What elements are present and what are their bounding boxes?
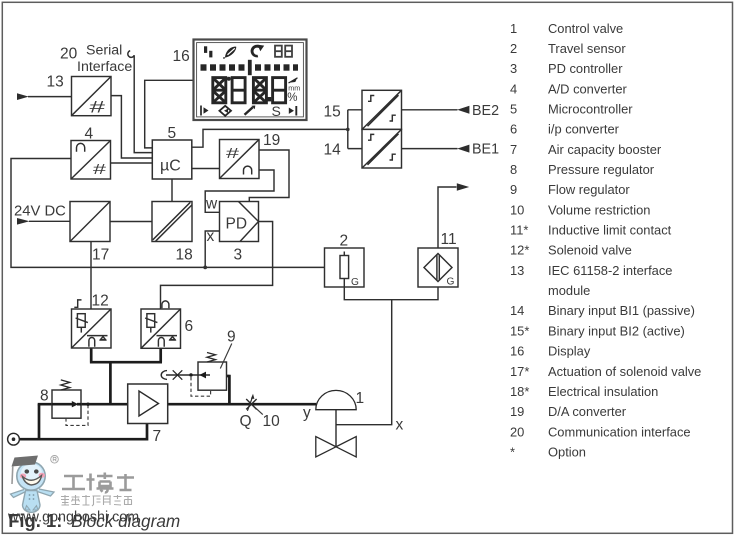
arrow from 11 up — [457, 183, 469, 191]
watermark small chinese line — [61, 495, 132, 506]
wire 5 to 19 — [192, 168, 220, 170]
svg-text:PD: PD — [226, 216, 248, 233]
svg-text:Air capacity booster: Air capacity booster — [548, 142, 662, 157]
svg-text:2: 2 — [510, 41, 517, 56]
svg-text:8: 8 — [40, 388, 49, 405]
svg-text:x: x — [207, 228, 215, 245]
svg-text:14: 14 — [510, 303, 524, 318]
arrow 24V DC — [17, 218, 30, 225]
wire 17 to solenoid 12 — [90, 242, 92, 310]
serial interface hook — [128, 51, 134, 58]
svg-text:6: 6 — [510, 122, 517, 137]
svg-text:18*: 18* — [510, 384, 529, 399]
watermark chinese brand text (drawn strokes) — [62, 473, 134, 493]
svg-text:15: 15 — [324, 104, 341, 121]
svg-text:3: 3 — [234, 247, 243, 264]
svg-text:17: 17 — [92, 247, 109, 264]
svg-text:11*: 11* — [510, 223, 528, 238]
junction dots — [346, 128, 350, 132]
wire 24V DC to 17 — [29, 220, 70, 222]
wire 5 to binary-input junction — [192, 129, 348, 147]
redraw thick line through 7 gap — [109, 403, 112, 404]
air supply symbol — [8, 433, 20, 445]
supply line bottom — [19, 438, 147, 441]
svg-text:19: 19 — [263, 132, 280, 149]
dashed feedback 9 — [191, 377, 211, 396]
svg-text:4: 4 — [510, 81, 517, 96]
block 11 inductive limit contact — [418, 248, 458, 287]
riser to 8 line — [38, 404, 41, 440]
svg-text:15*: 15* — [510, 323, 529, 338]
wire display to uC — [145, 80, 193, 148]
svg-text:PD controller: PD controller — [548, 61, 623, 76]
svg-text:Interface: Interface — [77, 59, 132, 75]
svg-text:Flow regulator: Flow regulator — [548, 182, 630, 197]
wire junction to 15 and 14 — [348, 110, 362, 149]
svg-text:9: 9 — [510, 182, 517, 197]
svg-text:Communication interface: Communication interface — [548, 424, 691, 439]
block 18 electrical insulation — [152, 202, 192, 242]
block 8 pressure regulator — [52, 390, 81, 418]
svg-text:16: 16 — [510, 344, 524, 359]
wire BE2 — [402, 109, 458, 111]
wire x input of PD — [205, 231, 219, 267]
9 input line with vent and restriction — [166, 374, 210, 376]
spring on 8 — [61, 380, 70, 390]
output line 7 to valve dome — [168, 403, 317, 406]
svg-text:13: 13 — [510, 263, 524, 278]
wire serial interface down to uC — [134, 55, 152, 152]
svg-text:16: 16 — [173, 48, 190, 65]
spring on 9 — [207, 353, 216, 363]
svg-text:y: y — [303, 405, 311, 422]
svg-text:11: 11 — [441, 231, 457, 248]
svg-text:i/p converter: i/p converter — [548, 122, 620, 137]
svg-text:Block diagram: Block diagram — [71, 511, 180, 531]
svg-text:8: 8 — [510, 162, 517, 177]
wire 19 to w input — [205, 170, 274, 212]
block 4 A/D converter — [71, 141, 111, 180]
svg-text:3: 3 — [510, 61, 517, 76]
svg-text:7: 7 — [510, 142, 517, 157]
block 6 i/p converter — [141, 309, 181, 348]
arrow into 13 — [17, 93, 29, 100]
svg-text:Microcontroller: Microcontroller — [548, 102, 633, 117]
svg-text:Q: Q — [240, 413, 252, 430]
sine symbol above 6 — [162, 301, 169, 308]
arrow BE1 — [457, 145, 469, 153]
svg-text:6: 6 — [185, 318, 194, 335]
svg-text:10: 10 — [263, 413, 281, 430]
svg-text:#: # — [90, 99, 107, 117]
valve body — [316, 437, 356, 457]
svg-text:Option: Option — [548, 444, 586, 459]
block 5 microcontroller — [152, 140, 192, 179]
svg-text:7: 7 — [153, 428, 162, 445]
svg-text:S: S — [272, 103, 281, 119]
wire x feedback from valve — [336, 300, 392, 425]
svg-text:Control valve: Control valve — [548, 21, 623, 36]
svg-text:10: 10 — [510, 202, 524, 217]
wire 5 to 18 — [171, 179, 173, 202]
svg-text:*: * — [510, 444, 515, 459]
svg-text:20: 20 — [510, 424, 524, 439]
display: signal bars icon — [204, 46, 207, 53]
svg-text:#: # — [93, 161, 107, 178]
display: rotation icon — [251, 45, 260, 58]
dashed feedback 8 — [66, 404, 88, 425]
legend — [510, 21, 701, 460]
wire 2 and 11 bottoms joined — [344, 287, 438, 300]
display: bargraph — [201, 60, 299, 75]
wire BE1 — [402, 148, 458, 150]
block 14 binary input BI1 — [362, 129, 402, 168]
svg-text:Volume restriction: Volume restriction — [548, 202, 650, 217]
block 19 D/A converter — [220, 140, 260, 179]
svg-text:#: # — [226, 145, 240, 162]
svg-text:Fig. 1:: Fig. 1: — [8, 510, 62, 531]
svg-text:Solenoid valve: Solenoid valve — [548, 243, 632, 258]
block 12 solenoid valve — [72, 309, 112, 348]
svg-text:4: 4 — [85, 126, 94, 143]
svg-text:G: G — [447, 277, 455, 288]
wire travel signal: 4 left, down, long run to 2 — [11, 159, 325, 268]
svg-text:9: 9 — [227, 329, 236, 346]
line through 8 to 7 (drawn before box8? box8 has fill none) — [38, 403, 128, 406]
display: small 88 — [275, 46, 292, 57]
svg-text:module: module — [548, 283, 590, 298]
svg-text:Binary input BI2 (active): Binary input BI2 (active) — [548, 323, 685, 338]
arrow BE2 — [457, 106, 469, 114]
wire 17 to 18 — [110, 221, 152, 223]
block 3 PD controller — [220, 202, 259, 242]
svg-text:%: % — [287, 92, 297, 104]
diagram number labels — [60, 46, 78, 63]
block 9 flow regulator — [198, 362, 227, 390]
block 2 travel sensor — [325, 248, 365, 287]
restriction 10 — [246, 399, 256, 409]
block 17 actuation of solenoid valve — [70, 202, 110, 242]
block 15 binary input BI2 — [362, 90, 402, 129]
svg-text:2: 2 — [340, 233, 349, 250]
svg-text:µC: µC — [160, 158, 181, 175]
9 output drop — [227, 375, 230, 405]
pointer line for 9 — [220, 344, 232, 369]
display: big 7seg digits — [213, 78, 286, 103]
control valve dome — [316, 390, 356, 409]
svg-text:Display: Display — [548, 344, 591, 359]
svg-text:Serial: Serial — [86, 43, 122, 59]
svg-text:Electrical insulation: Electrical insulation — [548, 384, 658, 399]
svg-text:1: 1 — [510, 21, 517, 36]
wire 11 top to arrow — [438, 187, 457, 248]
wire 19 to PD top — [249, 150, 289, 202]
svg-text:Pressure regulator: Pressure regulator — [548, 162, 655, 177]
valve stem — [335, 410, 337, 447]
svg-text:14: 14 — [324, 142, 342, 159]
block 7 air capacity booster — [128, 384, 168, 424]
PNEUMATIC THICK LINES — [19, 348, 316, 441]
display: hand/write icon — [225, 47, 236, 58]
svg-text:Inductive limit contact: Inductive limit contact — [548, 223, 672, 238]
svg-text:20: 20 — [60, 46, 78, 63]
svg-text:12: 12 — [92, 293, 109, 310]
svg-text:x: x — [396, 417, 404, 434]
svg-text:18: 18 — [176, 247, 193, 264]
wire 13 to uC — [111, 96, 152, 158]
svg-text:BE2: BE2 — [472, 103, 499, 119]
display block 16 — [194, 40, 307, 121]
svg-text:IEC 61158-2 interface: IEC 61158-2 interface — [548, 263, 672, 278]
svg-text:Actuation of solenoid valve: Actuation of solenoid valve — [548, 364, 701, 379]
svg-text:G: G — [351, 277, 359, 288]
svg-text:17*: 17* — [510, 364, 529, 379]
riser to 7 bottom — [146, 424, 149, 441]
svg-text:19: 19 — [510, 404, 524, 419]
svg-text:BE1: BE1 — [472, 142, 499, 158]
wire PD output to i/p 6 — [161, 222, 273, 310]
display: units arrow — [289, 78, 298, 83]
svg-text:12*: 12* — [510, 243, 529, 258]
display: bottom icon row — [201, 106, 296, 116]
watermark mascot — [11, 456, 59, 513]
wire 4 to 5 — [111, 162, 153, 164]
wire input arrow to 13 — [28, 96, 72, 98]
svg-text:13: 13 — [47, 74, 64, 91]
svg-text:A/D converter: A/D converter — [548, 81, 628, 96]
solenoid outputs join — [90, 348, 162, 404]
svg-text:24V DC: 24V DC — [14, 204, 66, 220]
block 13 IEC interface module — [72, 77, 112, 116]
svg-text:5: 5 — [510, 102, 517, 117]
svg-text:1: 1 — [356, 390, 365, 407]
svg-text:Binary input BI1 (passive): Binary input BI1 (passive) — [548, 303, 695, 318]
svg-text:Travel sensor: Travel sensor — [548, 41, 626, 56]
pulse symbol above 12 — [74, 300, 81, 307]
svg-text:w: w — [205, 196, 218, 213]
svg-text:5: 5 — [168, 125, 177, 142]
svg-text:D/A converter: D/A converter — [548, 404, 627, 419]
